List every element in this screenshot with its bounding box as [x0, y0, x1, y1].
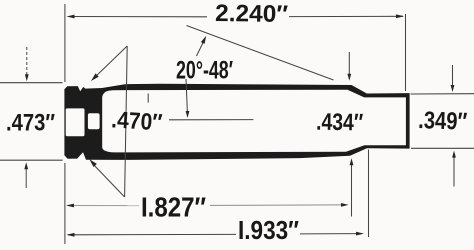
svg-text:I.827″: I.827″: [141, 191, 206, 222]
svg-text:I.933″: I.933″: [238, 217, 299, 245]
svg-text:.349″: .349″: [418, 107, 468, 136]
svg-text:.434″: .434″: [316, 109, 364, 137]
svg-text:2.240″: 2.240″: [215, 0, 289, 28]
svg-text:.473″: .473″: [6, 109, 55, 136]
svg-text:.470″: .470″: [111, 106, 163, 135]
svg-text:20°-48′: 20°-48′: [176, 57, 233, 85]
